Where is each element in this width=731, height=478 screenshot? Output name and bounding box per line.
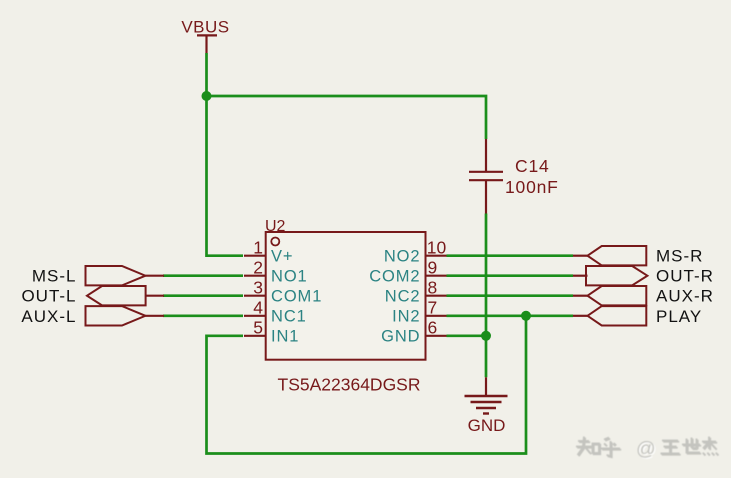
svg-text:7: 7	[428, 297, 438, 317]
svg-text:NO1: NO1	[271, 268, 308, 286]
svg-text:AUX-R: AUX-R	[656, 287, 714, 306]
svg-text:4: 4	[253, 297, 263, 317]
svg-text:AUX-L: AUX-L	[21, 307, 76, 326]
svg-text:NC1: NC1	[271, 308, 307, 326]
svg-text:10: 10	[427, 237, 447, 257]
svg-text:COM2: COM2	[369, 268, 420, 286]
svg-text:3: 3	[253, 277, 263, 297]
svg-text:VBUS: VBUS	[181, 18, 229, 37]
svg-text:NO2: NO2	[384, 248, 421, 266]
svg-text:9: 9	[428, 257, 438, 277]
svg-text:100nF: 100nF	[505, 177, 559, 197]
svg-text:MS-R: MS-R	[656, 247, 703, 266]
svg-text:OUT-R: OUT-R	[656, 267, 714, 286]
svg-text:PLAY: PLAY	[656, 307, 702, 326]
svg-text:C14: C14	[515, 156, 550, 176]
svg-text:GND: GND	[468, 416, 506, 435]
svg-text:@: @	[636, 438, 656, 460]
svg-text:COM1: COM1	[271, 288, 322, 306]
svg-text:NC2: NC2	[385, 288, 421, 306]
svg-text:V+: V+	[271, 248, 293, 266]
svg-text:OUT-L: OUT-L	[21, 287, 76, 306]
svg-text:MS-L: MS-L	[32, 267, 77, 286]
svg-text:IN2: IN2	[392, 308, 420, 326]
svg-text:IN1: IN1	[271, 328, 299, 346]
svg-text:8: 8	[428, 277, 438, 297]
svg-text:1: 1	[253, 237, 263, 257]
svg-text:5: 5	[253, 317, 263, 337]
svg-text:U2: U2	[265, 218, 286, 235]
svg-text:TS5A22364DGSR: TS5A22364DGSR	[278, 375, 421, 395]
svg-text:GND: GND	[381, 328, 420, 346]
svg-text:6: 6	[428, 317, 438, 337]
svg-text:2: 2	[253, 257, 263, 277]
